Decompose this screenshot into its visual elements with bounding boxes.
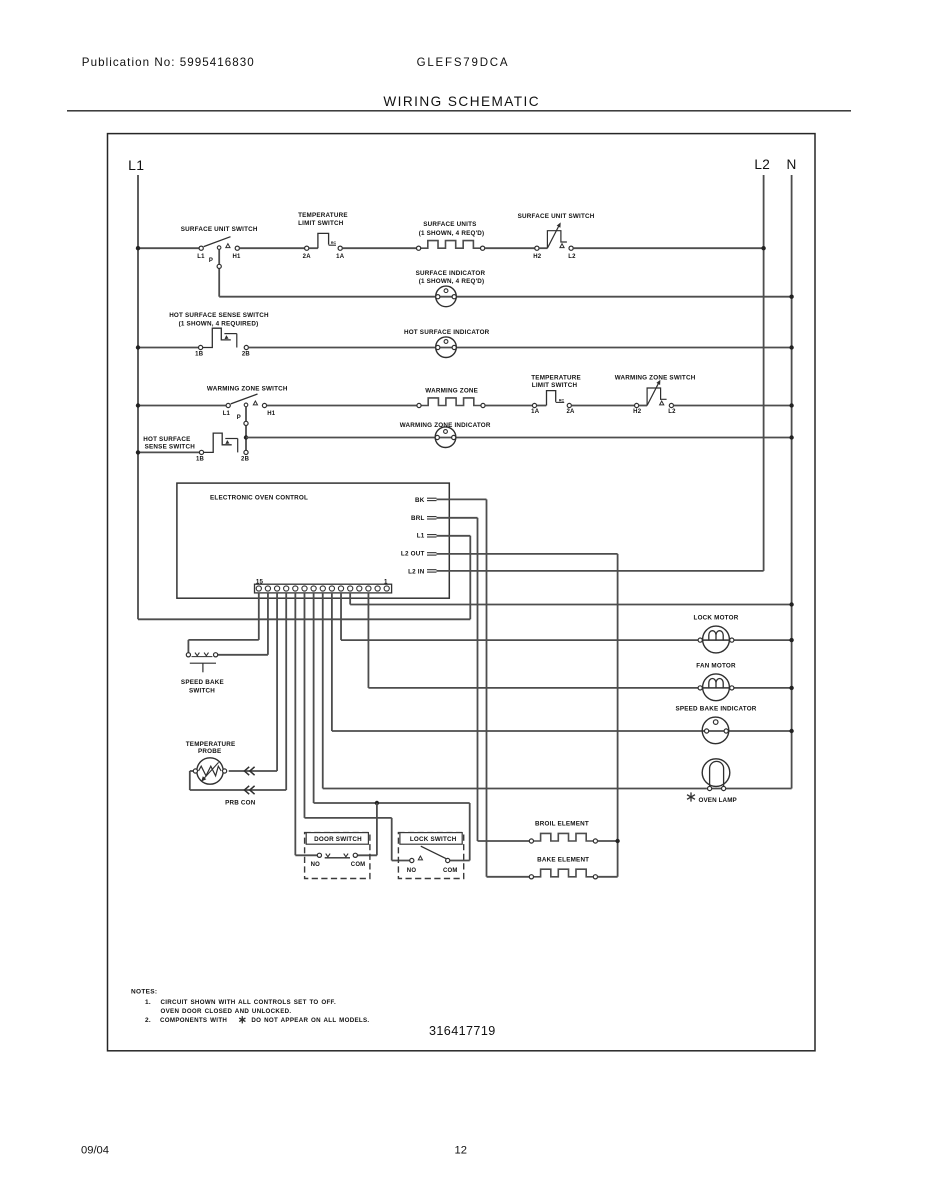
resistor warming zone element [421,398,481,406]
junction row6 on L1 bus [136,450,140,454]
wire row3 2B to N bus [248,347,791,349]
svg-text:PROBE: PROBE [198,748,221,755]
junction row1 on L1 bus [136,246,140,250]
wire row1 L2 to L2 bus [573,247,763,249]
svg-text:P: P [237,415,241,421]
svg-text:LOCK MOTOR: LOCK MOTOR [694,615,739,622]
connector terminal strip P1 pins 15-1 [255,584,392,593]
switch S6 temperature limit switch row4 [532,403,536,407]
wire branch to door switch COM [376,803,378,855]
wire N bus elbow to oven lamp [725,788,792,790]
svg-text:SURFACE UNIT SWITCH: SURFACE UNIT SWITCH [181,226,258,233]
svg-text:LIMIT SWITCH: LIMIT SWITCH [298,220,344,227]
terminal P row1 [217,264,221,268]
indicator hot surface indicator [436,337,457,358]
svg-text:SPEED BAKE INDICATOR: SPEED BAKE INDICATOR [675,706,756,713]
junction fan motor on N bus [789,686,793,690]
svg-text:LOCK SWITCH: LOCK SWITCH [410,836,457,843]
svg-text:HOT SURFACE INDICATOR: HOT SURFACE INDICATOR [404,329,490,336]
svg-text:L1: L1 [128,157,144,173]
connector chevrons probe top [244,767,254,775]
wire row6 L1 to 1B [138,451,199,453]
svg-text:L1: L1 [197,254,205,260]
svg-text:L2: L2 [568,254,576,260]
wire row3 L1 to 1B [138,347,199,349]
svg-text:HOT SURFACE: HOT SURFACE [143,436,190,443]
wire L1 eoc to L1 bus [437,535,471,537]
svg-text:WARMING ZONE INDICATOR: WARMING ZONE INDICATOR [400,422,491,429]
svg-text:NO: NO [407,868,417,874]
svg-text:DO NOT APPEAR ON ALL MODELS.: DO NOT APPEAR ON ALL MODELS. [251,1017,369,1024]
svg-text:DOOR SWITCH: DOOR SWITCH [314,836,362,843]
wire pin7 to speed bake indicator [331,593,333,731]
svg-text:OVEN DOOR CLOSED AND UNLOCKED.: OVEN DOOR CLOSED AND UNLOCKED. [161,1008,292,1015]
svg-text:L1: L1 [223,411,231,417]
svg-text:1B: 1B [195,351,204,357]
svg-text:NOTES:: NOTES: [131,989,157,996]
svg-text:COM: COM [443,868,458,874]
svg-text:L2: L2 [668,409,676,415]
svg-text:(1 SHOWN, 4 REQ'D): (1 SHOWN, 4 REQ'D) [419,230,485,237]
junction pin5 wire on N bus [789,602,793,606]
svg-text:1A: 1A [336,254,345,260]
svg-text:COMPONENTS WITH: COMPONENTS WITH [160,1017,227,1024]
svg-text:(1 SHOWN, 4 REQUIRED): (1 SHOWN, 4 REQUIRED) [179,320,259,327]
switch S8 hot surface sense switch lower [199,450,203,454]
switch S11 lock switch contacts [410,858,414,862]
svg-text:TEMPERATURE: TEMPERATURE [186,741,236,748]
switch S9 speed bake switch [186,653,190,657]
svg-text:L2 OUT: L2 OUT [401,551,425,558]
svg-text:H1: H1 [267,411,276,417]
svg-text:2.: 2. [145,1017,151,1024]
junction row3 on N bus [789,345,793,349]
svg-text:WIRING SCHEMATIC: WIRING SCHEMATIC [383,94,540,109]
svg-text:SENSE SWITCH: SENSE SWITCH [145,444,196,451]
svg-text:P: P [209,258,213,264]
wire row4 element to 1A [485,405,532,407]
svg-text:Publication No: 5995416830: Publication No: 5995416830 [82,56,255,69]
svg-text:SURFACE INDICATOR: SURFACE INDICATOR [416,270,486,277]
svg-text:PRB CON: PRB CON [225,799,256,806]
switch S10 door switch contacts [317,853,321,857]
resistor bake element [534,869,594,877]
schematic border frame [108,134,816,1051]
svg-text:COM: COM [351,862,366,868]
wire L1 bus vertical [137,175,139,619]
svg-text:L2: L2 [754,157,770,172]
svg-text:H2: H2 [533,254,542,260]
svg-text:N: N [786,157,796,172]
svg-text:BRL: BRL [411,515,425,522]
wire P drop row1 [218,249,220,296]
resistor surface units element [421,241,481,249]
wire N bus vertical [791,175,793,789]
svg-text:1: 1 [384,578,388,585]
svg-text:SWITCH: SWITCH [189,688,215,695]
svg-text:NO: NO [311,862,321,868]
svg-text:BK: BK [415,497,425,504]
terminal P row4 [244,421,248,425]
svg-text:BROIL ELEMENT: BROIL ELEMENT [535,820,589,827]
junction lock motor on N bus [789,638,793,642]
svg-text:2B: 2B [242,351,251,357]
wire row5 warming zone indicator line [246,437,792,439]
wire bake element to L2OUT vertical [598,876,618,878]
svg-text:H2: H2 [633,409,642,415]
svg-text:316417719: 316417719 [429,1024,496,1038]
IC U1 electronic oven control box [177,483,449,598]
svg-text:SURFACE UNIT SWITCH: SURFACE UNIT SWITCH [518,213,595,220]
wire row4 H1 to warming zone element [267,405,417,407]
wire L2 OUT to elements [437,553,618,555]
wire row4 2A to H2 [571,405,634,407]
motor M1 lock motor [703,626,730,653]
svg-text:12: 12 [455,1145,467,1157]
wire pin6 to lock motor [340,593,342,640]
switch S4 hot surface sense switch row3 [199,345,203,349]
svg-text:2A: 2A [566,409,575,415]
svg-text:L2 IN: L2 IN [408,568,425,575]
svg-text:1B: 1B [196,456,205,462]
svg-text:ELECTRONIC OVEN CONTROL: ELECTRONIC OVEN CONTROL [210,494,308,501]
wire pin12 to probe return [285,593,287,790]
wire row1 1A to surface units [342,247,416,249]
svg-text:BAKE ELEMENT: BAKE ELEMENT [537,857,589,864]
thermistor temperature probe [197,758,223,784]
switch S11 lock switch enclosure [398,833,463,879]
svg-text:H1: H1 [232,254,241,260]
svg-text:WARMING ZONE SWITCH: WARMING ZONE SWITCH [615,375,696,382]
svg-text:15: 15 [256,578,264,585]
wire broil element to L2OUT vertical [598,840,618,842]
svg-text:WARMING ZONE SWITCH: WARMING ZONE SWITCH [207,386,288,393]
wire pin5 to N bus [349,593,351,605]
junction row5 on N bus [789,435,793,439]
switch S5 warming zone switch (left) [226,403,230,407]
svg-text:RC: RC [331,241,337,245]
junction row1 on L2 bus [761,246,765,250]
wire pin10 to lock switch NO [303,593,305,818]
header rule [67,110,851,112]
svg-text:CIRCUIT SHOWN WITH ALL CONTROL: CIRCUIT SHOWN WITH ALL CONTROLS SET TO O… [161,999,336,1006]
svg-text:(1 SHOWN, 4 REQ'D): (1 SHOWN, 4 REQ'D) [419,278,485,285]
wire row1 H1 to 2A [239,247,304,249]
wire row2 surface indicator line [219,296,791,298]
svg-text:FAN MOTOR: FAN MOTOR [696,663,736,670]
switch S1 surface unit switch (left) [199,246,203,250]
wire row1 L1 bus to surface unit switch [138,247,199,249]
resistor broil element [534,833,594,841]
asterisk oven lamp [690,792,692,801]
junction pin9 wire door branch [375,801,379,805]
wire pin8 to oven lamp [322,593,324,789]
junction broil on L2OUT vertical [615,839,619,843]
svg-text:TEMPERATURE: TEMPERATURE [298,212,348,219]
switch S3 surface unit switch (right) [535,246,539,250]
svg-text:WARMING ZONE: WARMING ZONE [425,388,478,395]
motor M2 fan motor [703,674,730,701]
svg-text:RC: RC [559,398,565,402]
svg-text:SPEED BAKE: SPEED BAKE [181,679,224,686]
svg-text:OVEN LAMP: OVEN LAMP [699,797,737,804]
wire L2 IN to L2 bus [437,570,764,572]
indicator surface indicator [436,286,457,307]
wire P drop row4 [245,406,247,450]
switch S7 warming zone switch (right) [635,403,639,407]
svg-text:LIMIT SWITCH: LIMIT SWITCH [532,382,578,389]
svg-text:09/04: 09/04 [81,1145,109,1157]
indicator warming zone indicator [435,427,456,448]
junction row4 on L1 bus [136,403,140,407]
svg-text:1.: 1. [145,999,151,1006]
wire L2 bus vertical [763,175,765,571]
wire pin14 to speed bake switch [267,593,269,655]
junction row4 on N bus [789,403,793,407]
lamp oven lamp [702,759,730,787]
wire pin15 to speed bake switch [258,593,260,640]
indicator speed bake indicator [702,717,729,744]
svg-text:HOT SURFACE SENSE SWITCH: HOT SURFACE SENSE SWITCH [169,312,269,319]
junction row2 on N bus [789,295,793,299]
wire pin9 to lock switch COM [313,593,315,803]
svg-text:L1: L1 [417,532,425,539]
junction row3 on L1 bus [136,345,140,349]
svg-text:GLEFS79DCA: GLEFS79DCA [417,57,510,69]
svg-text:2B: 2B [241,456,250,462]
wire pin3 to fan motor [367,593,369,688]
wire row4 L2 to N bus [674,405,792,407]
asterisk note 2 [241,1016,243,1023]
switch S2 temperature limit switch row1 [305,246,309,250]
switch S10 door switch enclosure [305,833,370,879]
svg-text:SURFACE UNITS: SURFACE UNITS [423,221,476,228]
svg-text:1A: 1A [531,409,540,415]
wire pin13 to probe [276,593,278,771]
wire pin11 to door switch [294,593,296,855]
svg-text:TEMPERATURE: TEMPERATURE [531,375,581,382]
wire BK to bake element [437,498,487,500]
wire row4 L1 to warming zone switch [138,405,226,407]
wire BRL to broil element [437,517,478,519]
connector chevrons probe bottom [244,786,254,794]
wire row1 element to H2 [485,247,535,249]
junction warming P drop row5 [244,435,248,439]
junction speed bake indicator on N bus [789,729,793,733]
svg-text:2A: 2A [303,254,312,260]
